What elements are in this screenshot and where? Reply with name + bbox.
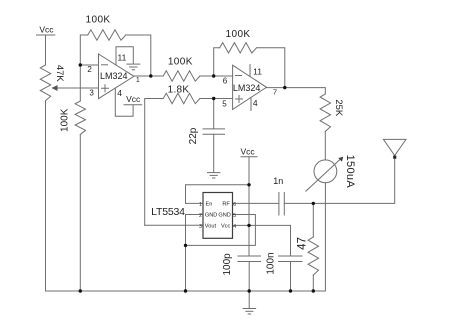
svg-text:100K: 100K — [86, 14, 111, 25]
svg-text:5: 5 — [233, 213, 236, 219]
svg-text:47K: 47K — [54, 65, 65, 83]
svg-text:11: 11 — [253, 67, 262, 77]
svg-text:11: 11 — [117, 53, 126, 63]
svg-text:Vcc: Vcc — [126, 94, 141, 104]
svg-text:LT5534: LT5534 — [151, 206, 185, 218]
svg-text:100n: 100n — [265, 252, 276, 274]
svg-text:150uA: 150uA — [344, 155, 356, 189]
svg-text:1: 1 — [199, 202, 202, 208]
svg-text:6: 6 — [233, 202, 236, 208]
svg-text:Vcc: Vcc — [221, 223, 231, 229]
svg-text:Vcc: Vcc — [241, 146, 256, 156]
svg-text:25K: 25K — [333, 99, 344, 117]
svg-text:2: 2 — [87, 65, 92, 74]
svg-text:4: 4 — [253, 98, 258, 108]
svg-text:RF: RF — [222, 201, 230, 207]
svg-text:5: 5 — [222, 99, 227, 108]
svg-text:GND: GND — [218, 212, 230, 218]
svg-text:47: 47 — [297, 237, 309, 250]
svg-text:2: 2 — [199, 213, 202, 219]
svg-text:1n: 1n — [273, 176, 283, 186]
svg-text:100p: 100p — [222, 253, 233, 276]
svg-text:Vout: Vout — [205, 223, 217, 229]
svg-text:GND: GND — [205, 212, 217, 218]
svg-text:Vcc: Vcc — [39, 24, 54, 34]
svg-text:3: 3 — [89, 88, 94, 97]
svg-text:1.8K: 1.8K — [168, 85, 190, 96]
svg-text:4: 4 — [117, 88, 122, 98]
svg-text:100K: 100K — [226, 29, 251, 40]
svg-text:LM324: LM324 — [233, 83, 261, 93]
svg-text:En: En — [206, 201, 213, 207]
svg-text:4: 4 — [233, 224, 236, 230]
svg-text:6: 6 — [223, 77, 228, 86]
svg-text:100K: 100K — [168, 57, 193, 68]
svg-text:3: 3 — [199, 224, 202, 230]
svg-text:1: 1 — [136, 77, 140, 84]
svg-text:100K: 100K — [59, 108, 70, 132]
svg-text:LM324: LM324 — [100, 71, 128, 81]
svg-text:22p: 22p — [188, 127, 199, 144]
svg-text:7: 7 — [273, 88, 277, 97]
